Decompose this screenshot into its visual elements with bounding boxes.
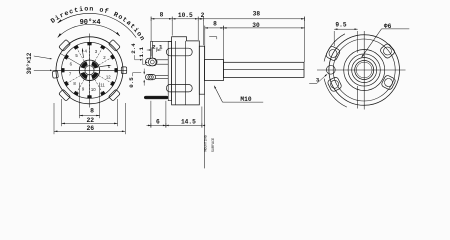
- left view: side tabs at 0 and 187 deg: [52, 67, 127, 78]
- left view: center crosshair: [53, 69, 127, 71]
- side view: terminal T1 upright post: [149, 41, 151, 58]
- rear view: dimension 9.5: [333, 31, 335, 46]
- side view: body front section line: [174, 41, 176, 105]
- side view: lower spacer slot: [166, 85, 192, 92]
- left view: center hub circle: [79, 60, 99, 80]
- rear view: lower-left clearance arc: [324, 79, 347, 108]
- svg-text:2.4: 2.4: [130, 43, 137, 54]
- rear view: shaft circle: [355, 61, 374, 80]
- side view: terminal T3 bottom flat: [144, 96, 168, 99]
- rear view: shaft inner rim: [356, 62, 372, 78]
- svg-text:8: 8: [213, 20, 217, 27]
- svg-text:11: 11: [100, 83, 105, 88]
- svg-text:M10: M10: [240, 96, 251, 103]
- svg-text:6: 6: [156, 118, 160, 125]
- side view: shaft flat line: [223, 68, 304, 70]
- svg-text:10: 10: [91, 87, 96, 92]
- side view: terminal T2 middle with hole: [146, 74, 156, 79]
- left view: dimension 26 (overall dia): [53, 103, 55, 134]
- left view: radial index lines: [56, 46, 114, 96]
- svg-text:90°×4: 90°×4: [80, 18, 101, 27]
- side view: wafer plate: [168, 41, 171, 100]
- svg-text:2: 2: [201, 12, 205, 19]
- svg-text:1.1: 1.1: [138, 47, 145, 58]
- side view: mounting flange lip: [199, 46, 204, 94]
- rear view: wafer edge line: [357, 86, 359, 109]
- rear view: inner body circle: [333, 39, 395, 101]
- svg-text:12: 12: [106, 74, 111, 79]
- side view: second dimension row 8 / 30: [205, 27, 305, 29]
- side view: bottom dimension row 6 / 14.5: [147, 124, 202, 126]
- svg-text:8: 8: [90, 108, 94, 115]
- side view: body internal line: [185, 41, 187, 105]
- rear view: locating hole at left: [326, 65, 335, 74]
- left view: 90 degree arc dimension with arrows: [58, 24, 120, 37]
- rear view: crosshair: [317, 69, 406, 71]
- side view: terminal T1 top with hole: [146, 58, 158, 66]
- svg-text:22: 22: [86, 117, 94, 124]
- side view: upper spacer slot: [166, 48, 192, 56]
- side view: top dimension row 8 / 10.5 / 2 / 38: [151, 18, 305, 20]
- left view: hub dark quadrant wedges: [81, 61, 99, 79]
- left view: position numbers 1-12: [69, 48, 111, 92]
- side view: bushing reference tick: [209, 36, 217, 38]
- svg-text:38: 38: [253, 11, 261, 18]
- svg-text:26: 26: [86, 125, 94, 132]
- side view: extension lines from top row: [150, 17, 152, 41]
- rear view: mounting lugs: [325, 43, 396, 93]
- svg-text:30°×12: 30°×12: [26, 52, 33, 74]
- left view: 30 deg leader lines: [34, 56, 51, 59]
- left view: index arrow pointing up: [83, 51, 84, 58]
- svg-text:MOUNTING: MOUNTING: [205, 135, 209, 151]
- svg-text:14.5: 14.5: [181, 119, 196, 126]
- left view: corner lugs on rim: [59, 39, 121, 101]
- rear view: bushing outer circle: [344, 50, 385, 91]
- rear view: bushing thread circle: [348, 54, 380, 86]
- side view: shaft: [223, 62, 304, 77]
- side view: mounting surface extension line: [204, 94, 206, 168]
- svg-text:30: 30: [252, 22, 260, 29]
- svg-text:2.1: 2.1: [152, 43, 163, 50]
- left view: flange ring circle: [62, 42, 118, 98]
- left view: arched label Direction of Rotation: [53, 11, 149, 60]
- left view: dimension 22 (flange dia): [61, 99, 63, 126]
- rear view: upper-left clearance arc: [324, 34, 345, 62]
- left view: dimension 8 (center boss): [78, 83, 80, 119]
- side view: switch body outline: [172, 37, 200, 105]
- svg-text:10.5: 10.5: [178, 12, 193, 19]
- svg-text:9.5: 9.5: [335, 22, 346, 29]
- left view: wiper arrow pointing right: [100, 65, 110, 66]
- side view: threaded bushing M10: [205, 59, 224, 80]
- left view: 12 position tick marks: [63, 44, 116, 97]
- left view: shaft circle: [85, 66, 94, 75]
- rear view: outer circle: [329, 35, 400, 106]
- svg-text:SURFACE: SURFACE: [212, 138, 216, 152]
- rear view: hub circle: [352, 58, 377, 83]
- svg-text:0.5: 0.5: [128, 77, 135, 88]
- svg-text:8: 8: [160, 12, 164, 19]
- left view: switch front face outline circle: [56, 37, 123, 104]
- left view: rotation direction arc with arrow: [58, 13, 137, 37]
